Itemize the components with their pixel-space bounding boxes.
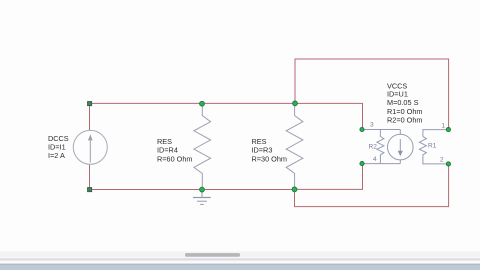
svg-text:R2=0 Ohm: R2=0 Ohm [387,116,423,125]
svg-text:RES: RES [157,137,172,146]
svg-text:2: 2 [440,157,444,164]
svg-text:R1: R1 [428,143,437,150]
svg-text:R=30 Ohm: R=30 Ohm [252,154,288,163]
svg-text:R=60 Ohm: R=60 Ohm [157,154,193,163]
svg-text:3: 3 [370,121,374,128]
svg-text:1: 1 [442,123,446,130]
svg-text:RES: RES [252,137,267,146]
svg-text:M=0.05 S: M=0.05 S [387,98,419,107]
svg-text:R2: R2 [369,144,378,151]
svg-text:I=2 A: I=2 A [48,151,65,160]
svg-text:4: 4 [373,156,377,163]
svg-text:DCCS: DCCS [48,134,69,143]
